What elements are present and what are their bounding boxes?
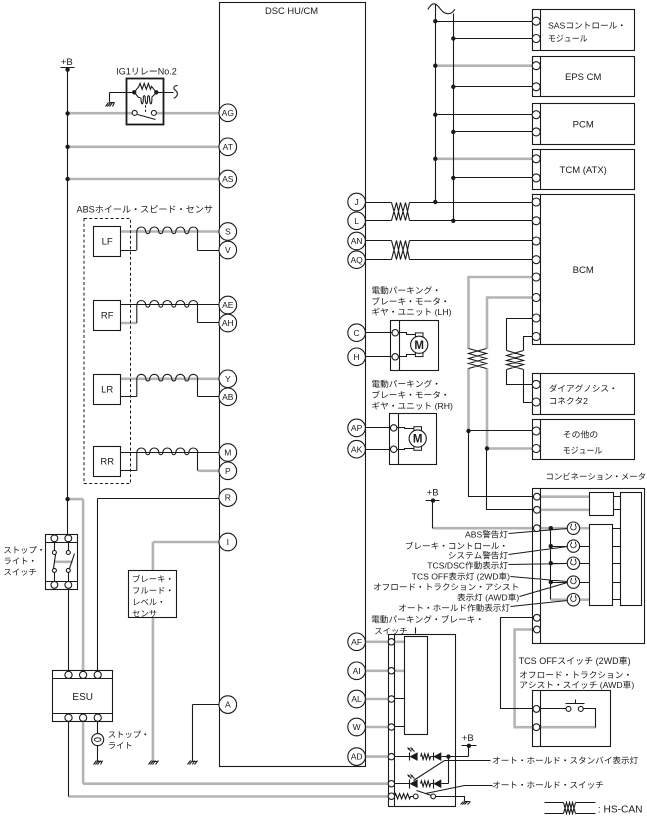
svg-text:M: M — [413, 434, 423, 446]
svg-text:IG1リレーNo.2: IG1リレーNo.2 — [116, 66, 177, 76]
svg-text:AS: AS — [222, 174, 234, 184]
svg-text:AE: AE — [222, 300, 234, 310]
svg-text:AG: AG — [222, 108, 234, 118]
svg-text:AD: AD — [351, 752, 363, 762]
svg-text:その他の: その他の — [563, 430, 598, 440]
svg-text:RF: RF — [101, 311, 114, 322]
svg-text:AF: AF — [351, 637, 362, 647]
svg-text:AP: AP — [351, 423, 363, 433]
svg-text:コンビネーション・メータ: コンビネーション・メータ — [546, 472, 647, 482]
svg-text:オフロード・トラクション・: オフロード・トラクション・ — [519, 670, 632, 680]
svg-text:TCS OFFスイッチ (2WD車): TCS OFFスイッチ (2WD車) — [519, 656, 631, 666]
svg-text:TCM (ATX): TCM (ATX) — [560, 165, 607, 176]
svg-text:ABSホイール・スピード・センサ: ABSホイール・スピード・センサ — [77, 205, 213, 215]
svg-text:オート・ホールド作動表示灯: オート・ホールド作動表示灯 — [398, 603, 510, 613]
svg-text:L: L — [354, 216, 359, 226]
svg-text:AN: AN — [351, 236, 363, 246]
svg-text:レベル・: レベル・ — [132, 597, 166, 607]
svg-text:PCM: PCM — [573, 120, 594, 131]
svg-text:TCS OFF表示灯 (2WD車): TCS OFF表示灯 (2WD車) — [412, 572, 510, 582]
svg-text:オート・ホールド・スタンバイ表示灯: オート・ホールド・スタンバイ表示灯 — [492, 756, 639, 766]
svg-text:+B: +B — [427, 487, 439, 498]
svg-text:オート・ホールド・スイッチ: オート・ホールド・スイッチ — [492, 780, 604, 790]
svg-text:モジュール: モジュール — [563, 445, 603, 455]
svg-text:システム警告灯: システム警告灯 — [448, 550, 509, 560]
svg-text:C: C — [354, 328, 360, 338]
svg-text:M: M — [414, 340, 424, 352]
svg-text:TCS/DSC作動表示灯: TCS/DSC作動表示灯 — [427, 561, 508, 571]
svg-text:電動パーキング・: 電動パーキング・ — [371, 286, 441, 296]
svg-text:アシスト・スイッチ (AWD車): アシスト・スイッチ (AWD車) — [519, 680, 634, 690]
svg-text:ブレーキ・: ブレーキ・ — [132, 574, 174, 584]
svg-text:H: H — [354, 352, 360, 362]
svg-text:: HS-CAN: : HS-CAN — [598, 804, 643, 815]
svg-text:BCM: BCM — [573, 265, 594, 276]
svg-text:AB: AB — [222, 392, 234, 402]
svg-text:P: P — [225, 466, 231, 476]
svg-text:スイッチ: スイッチ — [3, 567, 37, 577]
svg-text:ライト・: ライト・ — [3, 556, 37, 566]
svg-text:電動パーキング・: 電動パーキング・ — [371, 379, 441, 389]
svg-text:スイッチ: スイッチ — [374, 626, 408, 636]
svg-text:SASコントロール・: SASコントロール・ — [548, 20, 626, 30]
svg-text:AT: AT — [223, 142, 233, 152]
svg-text:DSC HU/CM: DSC HU/CM — [265, 5, 318, 16]
svg-text:LR: LR — [101, 385, 113, 396]
svg-text:ストップ・: ストップ・ — [108, 730, 150, 740]
svg-text:+B: +B — [61, 57, 73, 68]
svg-text:ギヤ・ユニット (LH): ギヤ・ユニット (LH) — [371, 307, 451, 317]
svg-text:V: V — [225, 245, 231, 255]
svg-text:AQ: AQ — [350, 255, 363, 265]
svg-text:AL: AL — [351, 694, 362, 704]
svg-text:ブレーキ・モータ・: ブレーキ・モータ・ — [371, 296, 449, 306]
svg-text:Y: Y — [225, 374, 231, 384]
svg-text:EPS CM: EPS CM — [565, 72, 602, 83]
svg-text:コネクタ2: コネクタ2 — [549, 396, 588, 406]
svg-text:フルード・: フルード・ — [132, 585, 174, 595]
svg-text:ストップ・: ストップ・ — [3, 545, 45, 555]
svg-text:AI: AI — [353, 666, 361, 676]
svg-text:+B: +B — [462, 733, 474, 744]
svg-text:J: J — [354, 197, 358, 207]
svg-text:RR: RR — [100, 457, 114, 468]
svg-text:W: W — [353, 722, 361, 732]
svg-text:センサ: センサ — [132, 608, 157, 618]
svg-text:S: S — [225, 227, 231, 237]
svg-text:LF: LF — [102, 237, 113, 248]
svg-text:ダイアグノシス・: ダイアグノシス・ — [549, 383, 618, 393]
svg-text:ESU: ESU — [72, 692, 93, 703]
svg-text:ブレーキ・コントロール・: ブレーキ・コントロール・ — [405, 541, 508, 551]
svg-text:ライト: ライト — [108, 741, 133, 751]
svg-text:ブレーキ・モータ・: ブレーキ・モータ・ — [371, 390, 449, 400]
svg-text:I: I — [227, 537, 229, 547]
svg-text:ギヤ・ユニット (RH): ギヤ・ユニット (RH) — [371, 401, 453, 411]
svg-text:R: R — [225, 493, 231, 503]
svg-text:オフロード・トラクション・アシスト: オフロード・トラクション・アシスト — [373, 582, 519, 592]
svg-text:ABS警告灯: ABS警告灯 — [465, 530, 508, 540]
svg-text:表示灯 (AWD車): 表示灯 (AWD車) — [457, 592, 519, 602]
svg-text:AH: AH — [222, 318, 234, 328]
svg-text:A: A — [225, 700, 231, 710]
svg-text:AK: AK — [351, 444, 363, 454]
svg-text:M: M — [224, 448, 231, 458]
svg-text:電動パーキング・ブレーキ・: 電動パーキング・ブレーキ・ — [371, 614, 484, 624]
svg-text:モジュール: モジュール — [548, 33, 588, 43]
